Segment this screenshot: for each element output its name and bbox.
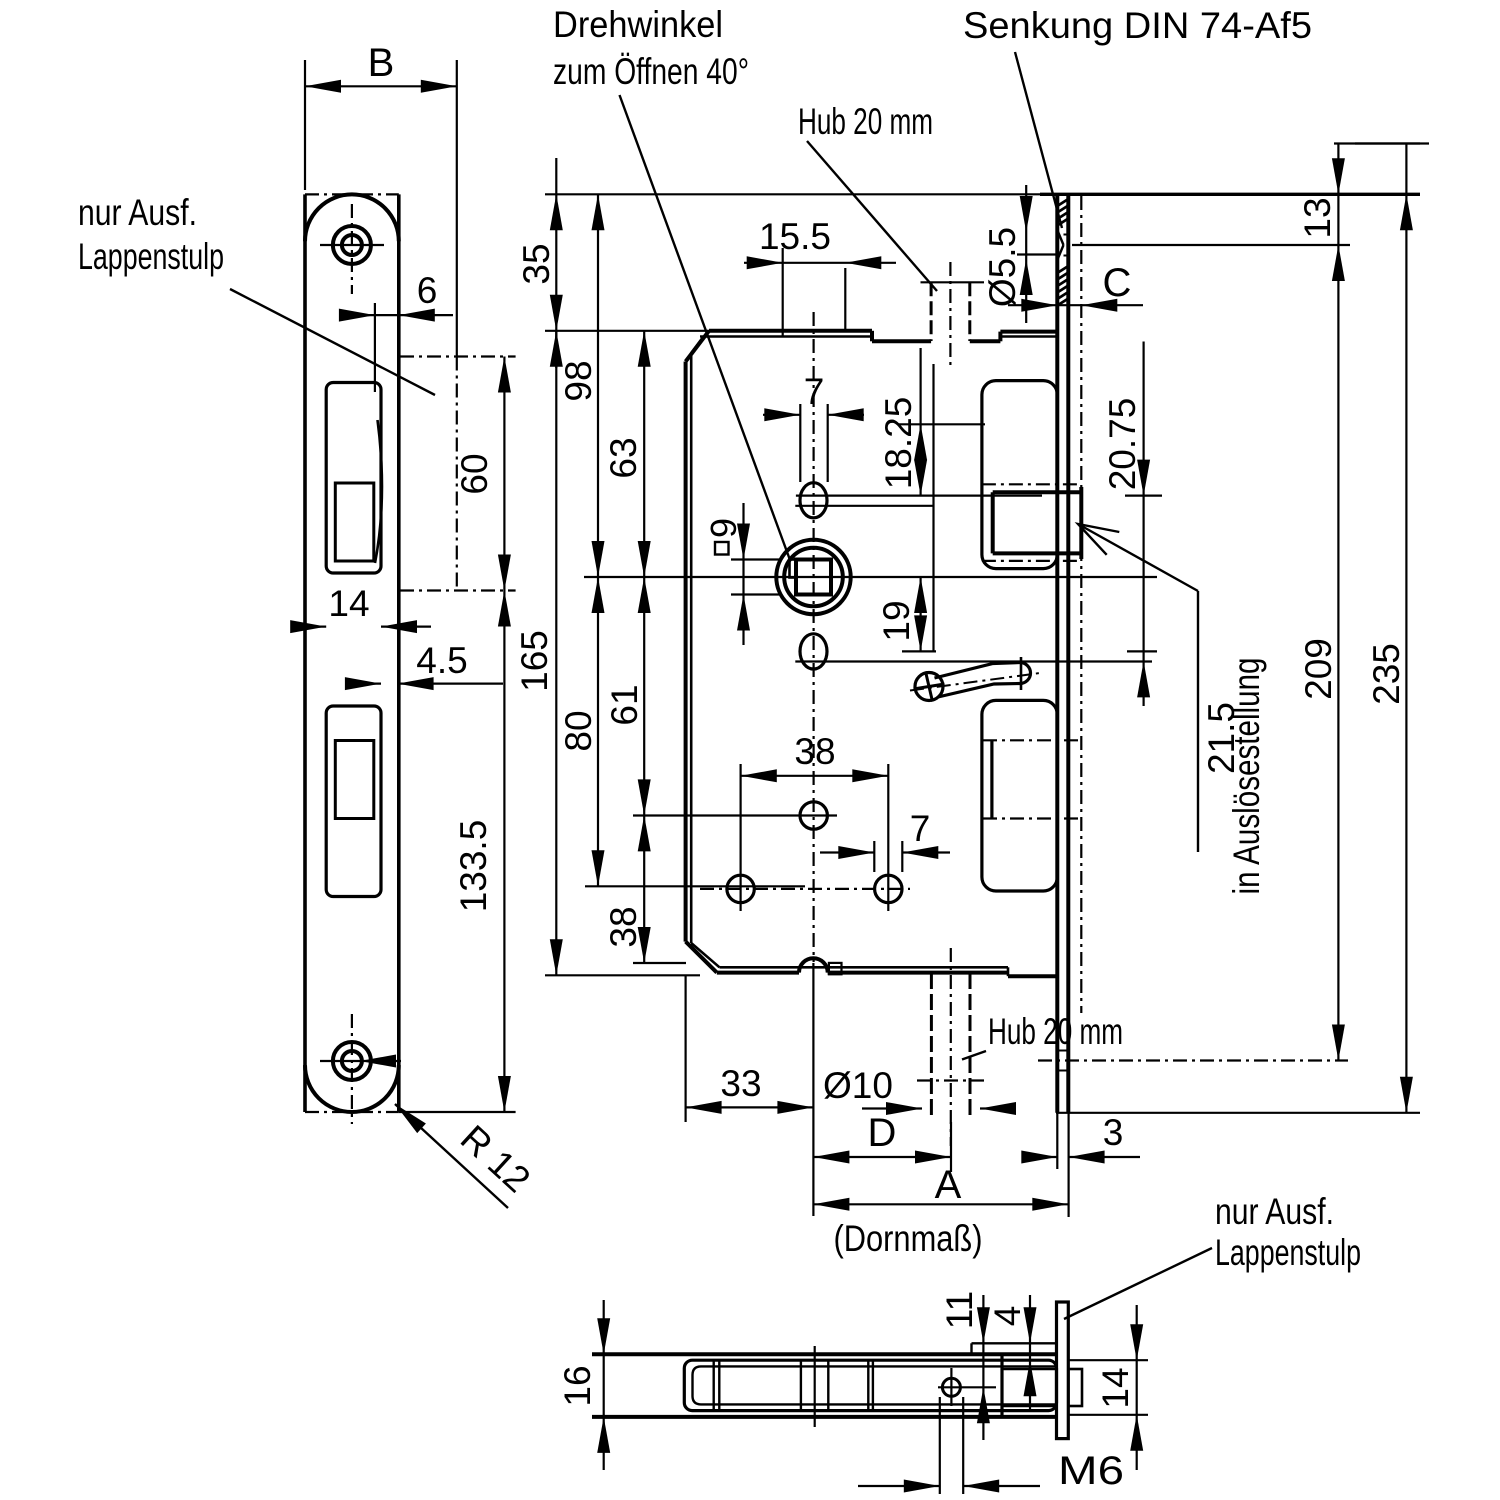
svg-text:Drehwinkel: Drehwinkel <box>553 4 723 45</box>
svg-text:13: 13 <box>1297 197 1338 238</box>
svg-text:20.75: 20.75 <box>1102 398 1143 491</box>
svg-text:A: A <box>935 1163 962 1207</box>
svg-text:14: 14 <box>1095 1367 1136 1408</box>
svg-text:Senkung DIN 74-Af5: Senkung DIN 74-Af5 <box>963 5 1312 46</box>
svg-text:B: B <box>368 41 395 85</box>
svg-text:16: 16 <box>557 1365 598 1406</box>
svg-text:(Dornmaß): (Dornmaß) <box>834 1218 983 1259</box>
svg-text:7: 7 <box>910 808 931 849</box>
svg-text:zum Öffnen 40°: zum Öffnen 40° <box>553 51 749 92</box>
svg-text:235: 235 <box>1366 643 1407 705</box>
svg-text:11: 11 <box>939 1291 980 1329</box>
svg-text:7: 7 <box>804 371 825 412</box>
svg-text:Ø10: Ø10 <box>823 1065 893 1106</box>
svg-text:M6: M6 <box>1058 1449 1124 1493</box>
svg-text:60: 60 <box>454 453 495 494</box>
svg-text:209: 209 <box>1298 638 1339 700</box>
svg-text:61: 61 <box>604 684 645 725</box>
svg-text:6: 6 <box>417 270 438 311</box>
svg-text:Lappenstulp: Lappenstulp <box>78 236 224 277</box>
svg-text:Lappenstulp: Lappenstulp <box>1215 1232 1361 1273</box>
svg-text:in Auslösestellung: in Auslösestellung <box>1226 658 1267 895</box>
svg-text:3: 3 <box>1103 1112 1124 1153</box>
svg-text:D: D <box>868 1111 897 1155</box>
svg-text:nur Ausf.: nur Ausf. <box>1215 1191 1334 1232</box>
svg-text:98: 98 <box>558 360 599 401</box>
svg-text:133.5: 133.5 <box>453 820 494 913</box>
svg-text:nur Ausf.: nur Ausf. <box>78 192 197 233</box>
svg-text:18.25: 18.25 <box>878 397 919 490</box>
svg-text:165: 165 <box>514 630 555 692</box>
svg-text:C: C <box>1103 261 1132 305</box>
svg-text:4: 4 <box>987 1306 1028 1327</box>
svg-text:4.5: 4.5 <box>416 640 467 681</box>
svg-text:35: 35 <box>516 243 557 284</box>
svg-text:14: 14 <box>328 583 369 624</box>
svg-text:80: 80 <box>558 710 599 751</box>
svg-text:33: 33 <box>720 1063 761 1104</box>
svg-text:15.5: 15.5 <box>759 216 831 257</box>
svg-text:38: 38 <box>603 906 644 947</box>
svg-text:Hub 20 mm: Hub 20 mm <box>988 1011 1123 1052</box>
svg-text:R 12: R 12 <box>453 1117 538 1200</box>
svg-text:38: 38 <box>794 731 835 772</box>
svg-text:9: 9 <box>703 518 744 538</box>
svg-text:Hub 20 mm: Hub 20 mm <box>798 101 933 142</box>
svg-text:19: 19 <box>876 600 917 641</box>
svg-text:63: 63 <box>603 437 644 478</box>
svg-text:Ø5.5: Ø5.5 <box>982 227 1023 307</box>
